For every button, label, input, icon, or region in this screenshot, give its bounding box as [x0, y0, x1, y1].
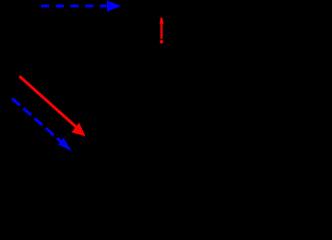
vector V4: blue dashed diagonal arrow (down-right)	[12, 98, 72, 151]
vector V1: blue dashed horizontal arrow (pointing right)	[41, 0, 121, 11]
vector V2: small red vertical arrow (pointing up) with dot at base	[160, 18, 164, 44]
vector V3: red solid diagonal arrow (down-right)	[19, 76, 85, 136]
